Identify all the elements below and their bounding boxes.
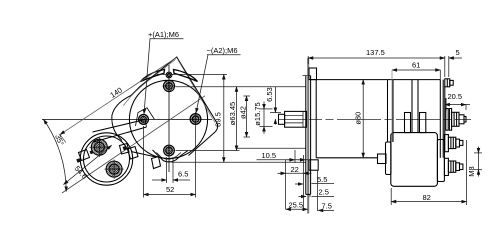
svg-text:25.5: 25.5 — [289, 201, 304, 210]
svg-text:82: 82 — [423, 193, 431, 202]
bracket below bottom hole — [153, 150, 189, 162]
flange inner edge gray — [124, 60, 176, 106]
svg-text:M8: M8 — [467, 166, 476, 176]
solenoid outer circle — [80, 133, 132, 185]
dim 52 ext lines — [143, 126, 145, 198]
solenoid plunger stub — [378, 154, 387, 164]
dim 82 line — [391, 201, 466, 203]
wire horizontal centerline left view — [42, 118, 212, 120]
dim 137.5 ext lines — [307, 56, 309, 64]
svg-text:89.5: 89.5 — [214, 112, 223, 127]
svg-text:20.5: 20.5 — [448, 92, 463, 101]
solenoid main body — [391, 133, 438, 187]
dim 6.5 arrows — [152, 179, 167, 181]
solenoid terminal lower crosshatched — [106, 161, 122, 177]
solenoid left cap — [386, 142, 392, 175]
dim 140 line — [60, 58, 177, 135]
B+ terminal stud — [446, 109, 448, 131]
dim 6.53 line — [274, 87, 276, 113]
flange back line — [305, 76, 307, 195]
dim 35 arc — [44, 119, 67, 191]
dim 52 line — [144, 194, 196, 196]
shaft step — [279, 114, 285, 124]
flange top edge — [303, 75, 311, 77]
wing cutout right — [174, 70, 198, 82]
dim 5.5 line — [312, 183, 335, 185]
flange face thick gray — [307, 58, 309, 214]
nut dot 1 — [76, 158, 81, 163]
svg-text:6.5: 6.5 — [178, 170, 188, 179]
dim 25.5 line — [286, 208, 308, 210]
dim o63.45 ext — [176, 86, 306, 88]
svg-text:2.5: 2.5 — [319, 188, 329, 197]
body end line — [439, 80, 441, 158]
dim M8 line — [474, 152, 482, 154]
leader A2 — [207, 54, 241, 56]
clip rect left of bracket — [152, 157, 161, 169]
dim o80 line — [362, 80, 364, 158]
nut dot 3 — [90, 150, 94, 154]
flange top tab — [309, 68, 317, 80]
shaft — [285, 111, 307, 127]
wing cutout left — [141, 70, 165, 82]
svg-text:ø80: ø80 — [354, 112, 363, 125]
flange front line — [310, 76, 312, 195]
svg-text:5: 5 — [456, 48, 460, 57]
motor body outline — [310, 79, 440, 81]
mounting boss rects — [405, 113, 411, 133]
link band to motor — [93, 120, 146, 133]
nut dot 2 — [123, 146, 128, 151]
hole bottom crosshatched — [164, 145, 175, 156]
dim 10.5 line — [257, 159, 309, 161]
solenoid bolts verticals pair2 — [411, 80, 413, 133]
svg-text:5.5: 5.5 — [317, 175, 327, 184]
dim o63.45 line — [236, 87, 238, 151]
hole top M6 crosshatched — [163, 80, 174, 91]
strap plate lower terminal — [128, 147, 139, 160]
stud top right — [445, 79, 450, 87]
svg-text:+(A1);M6: +(A1);M6 — [148, 30, 179, 39]
dim 89.5 top ext — [157, 73, 227, 75]
solenoid stud upper — [444, 135, 448, 152]
svg-text:52: 52 — [166, 185, 174, 194]
solenoid terminal upper crosshatched — [91, 139, 107, 155]
strap plate upper terminal — [120, 144, 130, 155]
solenoid inner circle — [84, 136, 130, 182]
bolt left M6 crosshatched — [136, 108, 155, 126]
dim o15.75 line — [260, 108, 273, 110]
dim 22 ext — [285, 160, 287, 209]
svg-text:ø15.75: ø15.75 — [253, 102, 262, 125]
ext verticals bottom — [303, 155, 305, 211]
svg-text:61: 61 — [412, 61, 420, 70]
bolt top small (pilot) — [166, 72, 172, 78]
dim 89.5 line — [223, 74, 225, 162]
node solenoid axis line (35 deg) — [62, 96, 205, 193]
flange triangle outline — [112, 57, 218, 157]
svg-text:ø42: ø42 — [239, 106, 248, 119]
dim o42 line — [244, 95, 251, 97]
flange bottom edge — [306, 193, 311, 195]
svg-text:6.53: 6.53 — [265, 87, 274, 102]
dim 7.5 line — [318, 209, 334, 211]
svg-text:ø63.45: ø63.45 — [228, 102, 237, 125]
flange bottom tab — [309, 160, 318, 170]
dim 54.6 line — [64, 145, 112, 184]
svg-text:137.5: 137.5 — [366, 48, 385, 57]
dim 82 ext lines — [390, 188, 392, 205]
dim 22 line + arrows — [286, 172, 304, 174]
dim 137.5 line — [308, 57, 445, 59]
dim 20.5 line — [445, 104, 470, 106]
clip left solenoid — [79, 150, 90, 161]
svg-text:7.5: 7.5 — [322, 202, 332, 211]
svg-text:−(A2);M6: −(A2);M6 — [207, 46, 238, 55]
dim 6.5 ext lines — [166, 157, 168, 183]
motor body circle (o80) — [129, 80, 207, 158]
solenoid right cap — [437, 140, 444, 182]
end cap lines — [442, 80, 444, 158]
leader A1 — [150, 38, 184, 40]
solenoid stud lower — [444, 158, 448, 175]
dim 61 line — [392, 69, 440, 71]
wire long bottom ext line — [172, 161, 306, 163]
bolt right M6 crosshatched — [190, 114, 201, 125]
solenoid bolts verticals pair1 — [387, 80, 389, 142]
svg-text:10.5: 10.5 — [262, 151, 277, 160]
wire vertical centerline left view — [168, 65, 170, 172]
svg-text:22: 22 — [291, 165, 299, 174]
wire motor axis centerline — [278, 118, 471, 120]
dim 5 line — [449, 57, 462, 59]
dim 2.5 line — [312, 196, 335, 198]
